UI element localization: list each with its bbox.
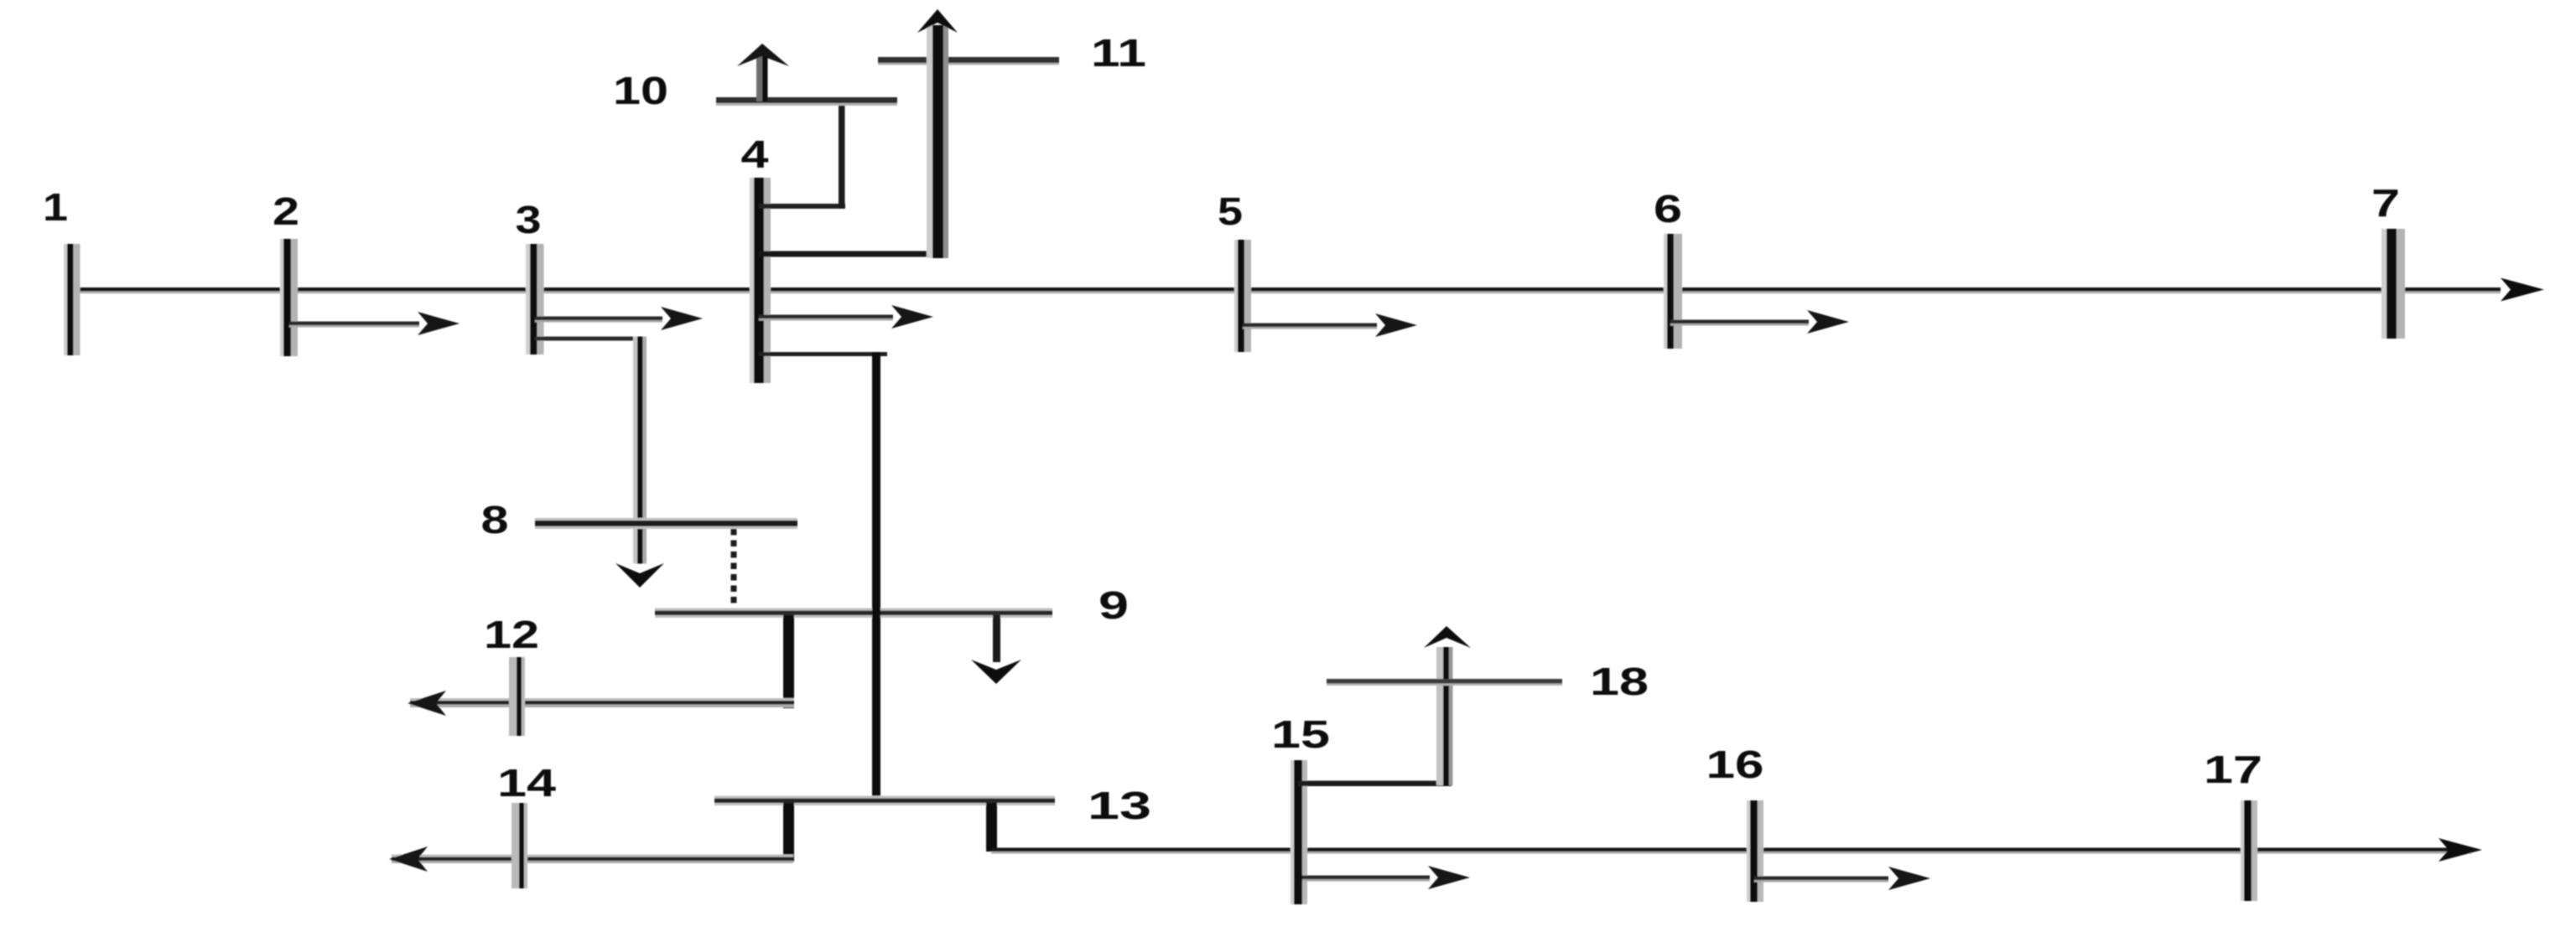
- svg-text:15: 15: [1271, 712, 1330, 756]
- wire bus 15 to bus 18 (horizontal): [1298, 781, 1452, 787]
- svg-text:12: 12: [484, 613, 539, 656]
- load arrow bus 16: [1754, 867, 1930, 890]
- wire bus 9 to bus 12: [408, 691, 794, 716]
- load arrow bus 15: [1302, 866, 1470, 889]
- wire main line buses 1-7: [70, 278, 2544, 302]
- wire bus 13 to bus 14: [389, 847, 793, 872]
- wire bus 3 to bus 8 (vertical, crosses bus 8 bar): [633, 337, 647, 564]
- generator arrow bus 10 (up): [737, 44, 789, 101]
- bus 4 bar: [750, 178, 771, 383]
- wire bus 4 to bus 10 (vertical): [839, 101, 845, 209]
- load arrow bus 3: [535, 307, 703, 330]
- svg-text:6: 6: [1654, 187, 1682, 230]
- bus 12 bar: [509, 657, 525, 736]
- svg-text:2: 2: [273, 189, 299, 233]
- svg-text:3: 3: [516, 198, 542, 241]
- load arrow bus 9 (down): [971, 615, 1021, 684]
- bus 15 bar: [1291, 760, 1307, 904]
- svg-text:11: 11: [1091, 31, 1146, 75]
- generator arrow bus 11 (up, thick): [917, 9, 958, 258]
- load arrow bus 6: [1670, 310, 1849, 334]
- svg-text:17: 17: [2204, 748, 2262, 791]
- svg-text:18: 18: [1590, 660, 1649, 703]
- svg-text:14: 14: [497, 761, 557, 805]
- load arrow bus 2: [289, 312, 460, 335]
- dashed tie bus 8 to bus 9: [731, 529, 737, 609]
- load arrow bus 4: [759, 305, 933, 329]
- bus 5 bar: [1234, 240, 1251, 352]
- svg-text:5: 5: [1218, 189, 1243, 233]
- bus 16 bar: [1747, 800, 1763, 902]
- svg-text:9: 9: [1098, 583, 1129, 627]
- bus 11 bar: [878, 57, 1059, 65]
- bus 18 bar: [1327, 679, 1562, 686]
- svg-text:10: 10: [613, 69, 668, 112]
- wire bus 4 down (horizontal stub): [759, 352, 887, 356]
- svg-text:4: 4: [741, 132, 770, 176]
- svg-text:16: 16: [1706, 743, 1764, 786]
- wire bus 4 to bus 11 (horizontal): [759, 251, 943, 257]
- wire bottom line 13-15-16-17: [991, 838, 2482, 862]
- svg-text:7: 7: [2371, 181, 2400, 225]
- bus 6 bar: [1664, 234, 1682, 349]
- bus 9 bar: [655, 608, 1052, 619]
- bus 8 bar: [535, 518, 797, 529]
- bus 7 bar: [2381, 229, 2405, 339]
- wire bus 4 to bus 10 (horizontal): [759, 204, 845, 209]
- bus 3 bar: [526, 244, 544, 355]
- bus 1 bar: [64, 244, 80, 355]
- stub bus 13 down-right to bottom line: [986, 803, 997, 852]
- svg-text:8: 8: [481, 498, 509, 541]
- svg-text:13: 13: [1088, 784, 1151, 827]
- bus 17 bar: [2241, 800, 2257, 901]
- bus 13 bar: [714, 796, 1055, 806]
- svg-text:1: 1: [43, 185, 68, 229]
- bus 10 bar: [716, 97, 897, 106]
- generator arrow bus 18 (vertical shaft up through bar): [1424, 626, 1471, 785]
- arrowhead down into bus 8: [615, 563, 664, 588]
- load arrow bus 5: [1243, 313, 1417, 337]
- bus 14 bar: [512, 803, 527, 888]
- bus 2 bar: [280, 239, 298, 356]
- stub bus 9 down to line 9-12: [783, 615, 794, 708]
- stub bus 13 down-left to line 13-14: [783, 803, 794, 862]
- wire bus 4 to bus 13 (long vertical): [872, 352, 880, 800]
- wire bus 3 to bus 8 (horizontal stub): [535, 337, 644, 341]
